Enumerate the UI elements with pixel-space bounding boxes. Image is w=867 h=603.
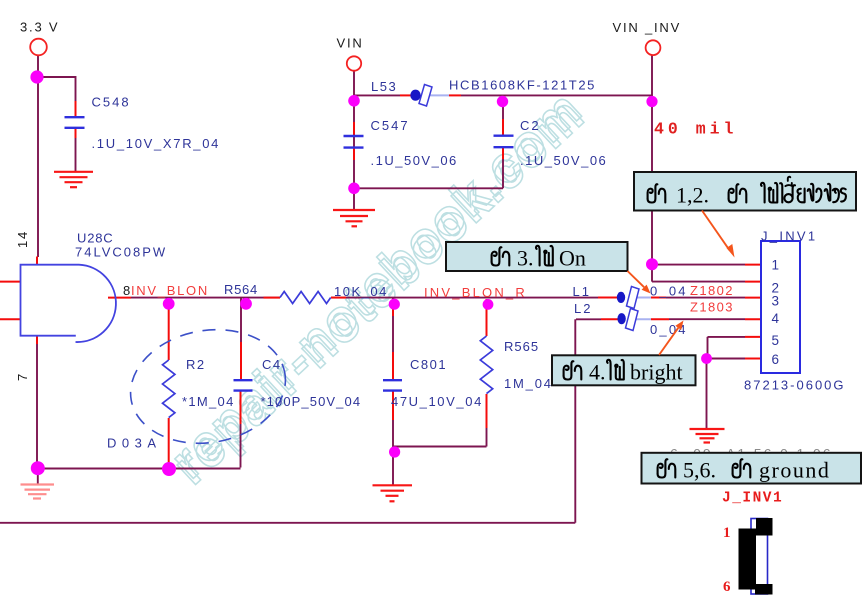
svg-text:INV_BLON: INV_BLON — [131, 283, 209, 298]
svg-text:Z1802: Z1802 — [690, 283, 734, 298]
svg-text:1: 1 — [723, 525, 731, 541]
svg-text:HCB1608KF-121T25: HCB1608KF-121T25 — [449, 78, 596, 93]
svg-text:On: On — [559, 246, 586, 271]
svg-text:6: 6 — [723, 579, 731, 595]
svg-text:D03A: D03A — [107, 436, 162, 451]
svg-text:6: 6 — [772, 352, 780, 367]
svg-text:1,2.: 1,2. — [676, 183, 709, 208]
svg-text:1: 1 — [772, 258, 780, 273]
svg-text:14: 14 — [15, 230, 30, 248]
svg-text:C547: C547 — [371, 118, 410, 133]
svg-text:4.: 4. — [589, 360, 606, 385]
svg-text:J_INV1: J_INV1 — [722, 491, 783, 507]
svg-text:5,6.: 5,6. — [683, 458, 716, 483]
svg-text:10K_04: 10K_04 — [334, 284, 388, 299]
svg-text:ground: ground — [759, 458, 830, 483]
svg-text:7: 7 — [15, 372, 30, 381]
svg-text:*1M_04: *1M_04 — [182, 394, 235, 409]
svg-text:3.: 3. — [517, 246, 534, 271]
svg-text:3.3 V: 3.3 V — [20, 20, 59, 35]
svg-text:L53: L53 — [371, 79, 397, 94]
svg-text:VIN _INV: VIN _INV — [613, 20, 682, 35]
svg-text:4: 4 — [772, 311, 780, 326]
svg-text:.1U_50V_06: .1U_50V_06 — [520, 153, 607, 168]
svg-text:J_INV1: J_INV1 — [761, 229, 817, 244]
svg-text:L1: L1 — [573, 284, 591, 299]
svg-text:40 mil: 40 mil — [654, 120, 737, 139]
svg-text:*100P_50V_04: *100P_50V_04 — [261, 394, 362, 409]
svg-text:47U_10V_04: 47U_10V_04 — [391, 394, 483, 409]
svg-text:0_04: 0_04 — [650, 284, 688, 299]
svg-text:C2: C2 — [520, 118, 541, 133]
svg-text:R564: R564 — [224, 282, 258, 297]
svg-text:.1U_10V_X7R_04: .1U_10V_X7R_04 — [92, 136, 221, 151]
svg-text:INV_BLON_R: INV_BLON_R — [424, 285, 527, 300]
svg-text:U28C: U28C — [77, 231, 113, 246]
svg-text:3: 3 — [772, 294, 780, 309]
svg-text:1M_04: 1M_04 — [504, 376, 553, 391]
svg-text:L2: L2 — [574, 301, 592, 316]
svg-text:5: 5 — [772, 333, 780, 348]
svg-text:87213-0600G: 87213-0600G — [744, 378, 846, 393]
svg-text:.1U_50V_06: .1U_50V_06 — [371, 153, 458, 168]
svg-text:C801: C801 — [410, 357, 447, 372]
svg-text:R2: R2 — [186, 357, 206, 372]
svg-text:Z1803: Z1803 — [690, 300, 734, 315]
svg-text:VIN: VIN — [337, 36, 364, 51]
svg-text:74LVC08PW: 74LVC08PW — [75, 245, 167, 260]
svg-text:8: 8 — [123, 283, 130, 298]
svg-text:C548: C548 — [92, 95, 131, 110]
svg-text:bright: bright — [630, 360, 683, 385]
svg-text:R565: R565 — [504, 339, 539, 354]
svg-text:C4: C4 — [262, 357, 282, 372]
